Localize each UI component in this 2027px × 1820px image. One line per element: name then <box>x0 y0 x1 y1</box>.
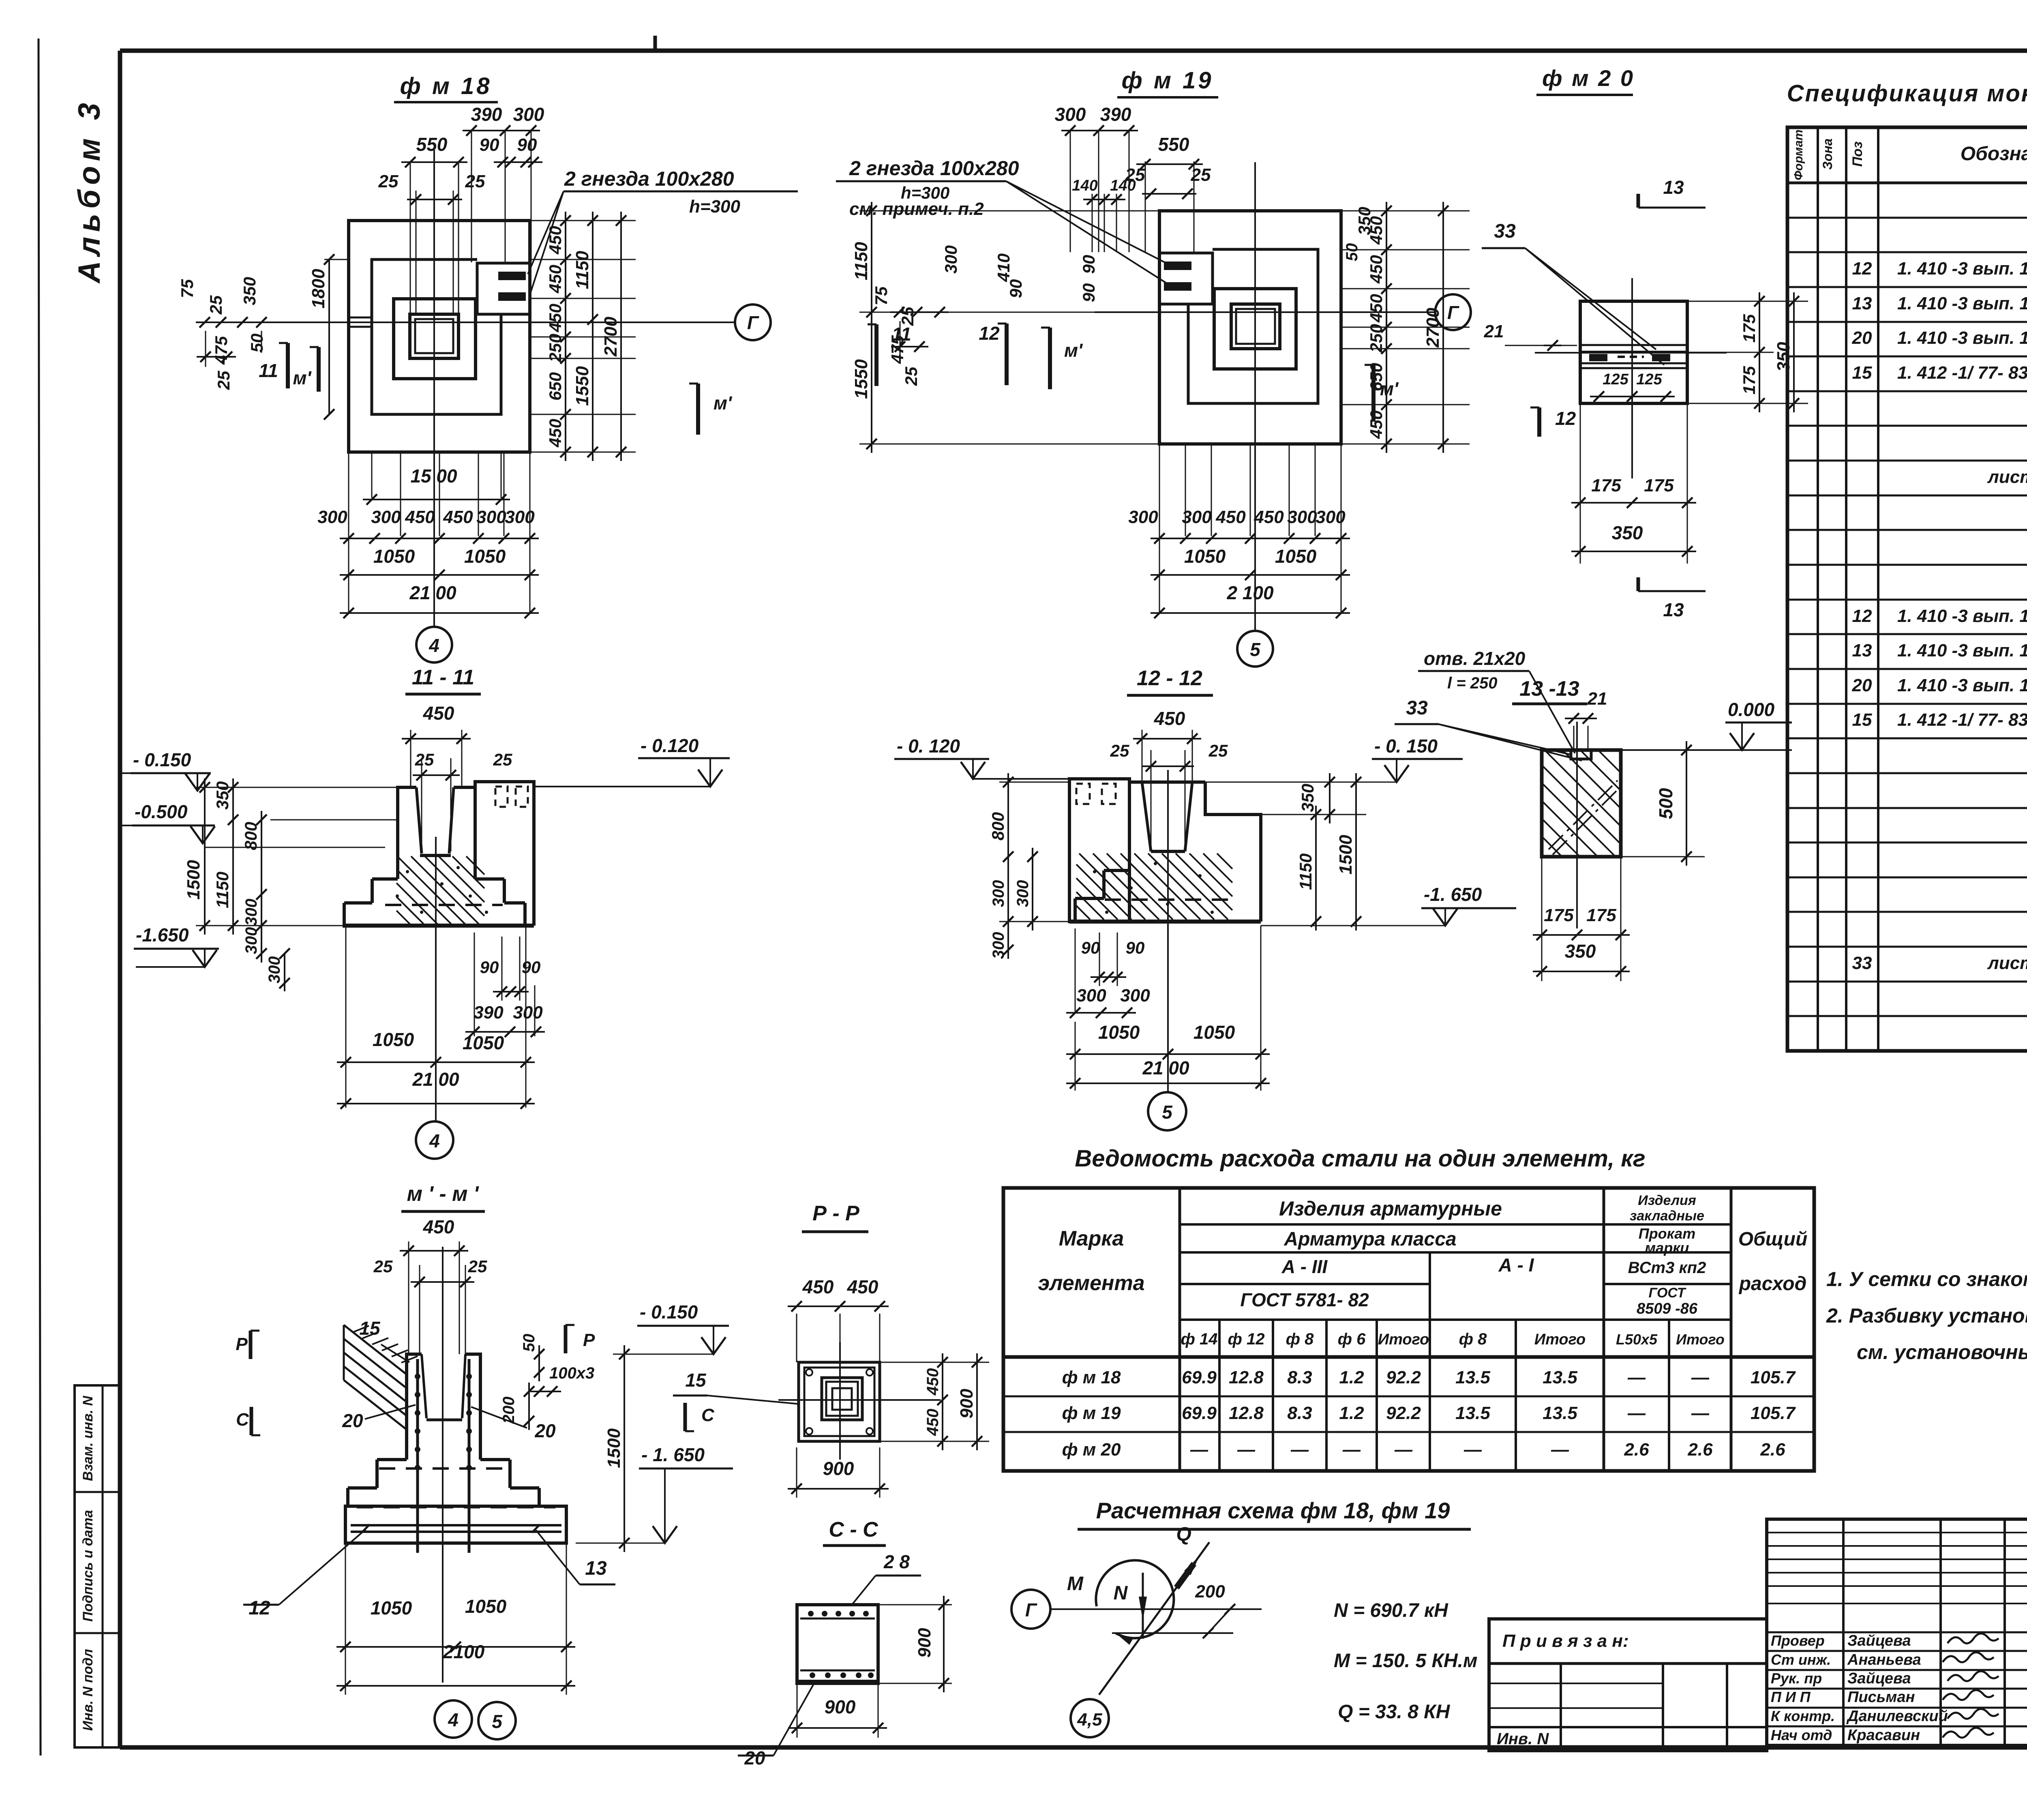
P-P right dims 450 450 <box>880 1362 989 1363</box>
FM18 axis circle 4 <box>416 627 452 662</box>
FM19 pier square <box>1214 289 1296 369</box>
svg-text:500: 500 <box>1655 788 1676 819</box>
svg-text:450: 450 <box>1367 255 1386 284</box>
13-13 block <box>1542 750 1621 857</box>
svg-text:15 00: 15 00 <box>410 465 457 487</box>
svg-text:300: 300 <box>242 927 260 954</box>
svg-text:—: — <box>1342 1440 1361 1460</box>
svg-text:175: 175 <box>1544 905 1574 925</box>
svg-text:Красавин: Красавин <box>1847 1727 1920 1744</box>
11-11 slab <box>343 903 346 926</box>
svg-text:450: 450 <box>546 304 565 332</box>
svg-text:390: 390 <box>1100 104 1131 125</box>
13-13 hatch <box>1543 838 1561 855</box>
FM19 socket bar 2 <box>1164 282 1191 291</box>
11-11 right block <box>475 782 534 926</box>
FM19 right extension lines <box>1341 210 1470 212</box>
svg-text:13.5: 13.5 <box>1543 1368 1577 1387</box>
FM19 socket block <box>1159 253 1213 304</box>
svg-text:марки: марки <box>1645 1239 1689 1256</box>
FM18 left dims cluster <box>205 322 349 323</box>
svg-text:1050: 1050 <box>463 1032 504 1053</box>
svg-text:1050: 1050 <box>1275 546 1317 567</box>
svg-text:550: 550 <box>1158 134 1189 155</box>
svg-text:Арматура класса: Арматура класса <box>1283 1228 1456 1250</box>
P-P center cross <box>839 1342 841 1460</box>
paper edge left line <box>39 39 41 1756</box>
11-11 axis circle 4 <box>416 1121 453 1159</box>
svg-text:300: 300 <box>1287 507 1317 527</box>
P-P mid square double <box>822 1378 862 1420</box>
svg-text:300: 300 <box>371 507 401 527</box>
FM18 outer slab outline <box>349 221 530 452</box>
13-13 dash-dot lines <box>1549 780 1618 849</box>
svg-text:300: 300 <box>941 245 960 274</box>
svg-text:21: 21 <box>1587 689 1607 709</box>
svg-text:11: 11 <box>259 360 278 381</box>
svg-text:Итого: Итого <box>1378 1331 1429 1348</box>
svg-text:1550: 1550 <box>851 359 871 399</box>
FM19 gnezda leaders <box>1006 181 1166 263</box>
svg-text:300: 300 <box>1076 986 1106 1005</box>
FM18 vertical axis 4 <box>433 150 435 626</box>
svg-text:ВСт3 кп2: ВСт3 кп2 <box>1628 1259 1706 1277</box>
svg-text:20: 20 <box>1852 675 1872 695</box>
svg-text:175: 175 <box>1740 314 1759 343</box>
svg-text:Общий: Общий <box>1738 1228 1808 1250</box>
svg-text:Г: Г <box>747 312 759 333</box>
svg-text:90: 90 <box>1126 938 1145 957</box>
svg-text:Р - Р: Р - Р <box>812 1202 859 1225</box>
FM19 left dim col <box>871 202 872 453</box>
svg-text:12.8: 12.8 <box>1229 1403 1264 1423</box>
svg-text:390: 390 <box>474 1003 504 1023</box>
FM20 cut marker 12 left <box>1537 407 1541 437</box>
svg-text:1550: 1550 <box>572 366 592 406</box>
svg-text:Взам. инв. N: Взам. инв. N <box>80 1395 96 1481</box>
svg-text:350: 350 <box>1612 522 1643 543</box>
11-11 axis line <box>435 837 437 1121</box>
C-C right dim 900 <box>878 1604 952 1606</box>
P-P right dim 900 <box>976 1353 978 1450</box>
svg-text:-1.650: -1.650 <box>136 924 189 945</box>
svg-text:Инв. N подл: Инв. N подл <box>80 1649 96 1731</box>
svg-text:90: 90 <box>522 958 541 977</box>
svg-text:300: 300 <box>1014 880 1032 907</box>
svg-text:расход: расход <box>1738 1273 1807 1295</box>
svg-text:175: 175 <box>1591 476 1621 495</box>
svg-text:1050: 1050 <box>371 1597 412 1618</box>
svg-text:М: М <box>1067 1573 1084 1595</box>
svg-text:1500: 1500 <box>604 1428 624 1468</box>
FM18 right dim col2 <box>592 212 594 461</box>
svg-text:2 гнезда 100х280: 2 гнезда 100х280 <box>564 167 734 190</box>
svg-text:L50х5: L50х5 <box>1616 1331 1658 1348</box>
svg-text:350: 350 <box>1355 207 1374 235</box>
svg-text:21: 21 <box>1484 322 1504 341</box>
svg-text:ф м 20: ф м 20 <box>1062 1440 1121 1460</box>
M'M' mesh lines <box>351 1524 561 1526</box>
svg-text:- 1. 650: - 1. 650 <box>641 1444 705 1465</box>
svg-text:90: 90 <box>1079 255 1098 274</box>
FM19 left extension lines <box>859 210 1159 212</box>
C-C bottom dots <box>810 1672 815 1678</box>
svg-text:450: 450 <box>1215 507 1246 527</box>
12-12 axis line <box>1167 770 1169 1092</box>
svg-text:Ананьева: Ананьева <box>1847 1651 1921 1668</box>
svg-text:ф 8: ф 8 <box>1286 1330 1314 1348</box>
M'M' rebar right with anchors <box>468 1359 471 1553</box>
svg-text:Р: Р <box>583 1330 595 1350</box>
svg-text:м': м' <box>293 367 312 388</box>
svg-text:2 гнезда 100х280: 2 гнезда 100х280 <box>849 157 1019 180</box>
svg-text:50: 50 <box>247 334 266 353</box>
FM19 horizontal axis G <box>1095 311 1434 313</box>
svg-text:- 0.150: - 0.150 <box>640 1301 698 1323</box>
svg-text:ф м 18: ф м 18 <box>400 73 492 99</box>
svg-text:Q = 33. 8 КН: Q = 33. 8 КН <box>1338 1701 1451 1723</box>
skhema axis circle G <box>1011 1590 1050 1629</box>
FM18 right dim col3 <box>620 212 622 461</box>
M'M' dashed level <box>379 1467 509 1470</box>
svg-text:90: 90 <box>1006 279 1025 298</box>
svg-text:390: 390 <box>471 104 502 125</box>
svg-text:650: 650 <box>546 372 565 401</box>
FM18 socket bar 1 <box>498 272 526 280</box>
svg-text:1050: 1050 <box>373 546 415 567</box>
svg-text:300: 300 <box>1128 507 1158 527</box>
FM19 socket bar 1 <box>1164 262 1191 270</box>
FM18 right dim col1 <box>565 212 566 461</box>
svg-text:5: 5 <box>1250 639 1261 660</box>
svg-text:90: 90 <box>1081 938 1100 957</box>
svg-text:300: 300 <box>317 507 347 527</box>
M'M' beam hatch <box>353 1326 369 1332</box>
svg-text:90: 90 <box>1079 283 1098 302</box>
12-12 dashed level line <box>1105 898 1235 901</box>
svg-text:1. 410 -3 вып. 1: 1. 410 -3 вып. 1 <box>1897 641 2027 660</box>
svg-text:1500: 1500 <box>184 860 204 900</box>
svg-text:м': м' <box>1064 340 1083 361</box>
svg-text:21 00: 21 00 <box>1142 1057 1189 1078</box>
svg-text:Подпись и дата: Подпись и дата <box>80 1510 96 1622</box>
FM18 gnezda leaders <box>528 191 564 274</box>
svg-text:15: 15 <box>359 1318 381 1339</box>
11-11 left dim stack <box>204 778 206 935</box>
svg-text:—: — <box>1627 1368 1646 1387</box>
svg-text:1150: 1150 <box>1296 853 1315 890</box>
FM18 middle rectangle 1800x1500 <box>372 259 501 414</box>
13-13 axis line <box>1576 722 1578 928</box>
11-11 body outline <box>398 787 416 879</box>
C-C square <box>797 1605 878 1683</box>
svg-text:Нач отд: Нач отд <box>1771 1727 1832 1743</box>
svg-text:5: 5 <box>1162 1102 1173 1123</box>
M'M' steps <box>377 1458 407 1461</box>
svg-text:350: 350 <box>213 781 232 810</box>
svg-text:450: 450 <box>924 1368 942 1396</box>
FM20 vertical axis <box>1631 278 1633 478</box>
C-C top inner line <box>800 1618 875 1620</box>
svg-text:12: 12 <box>1555 408 1576 429</box>
svg-text:ГОСТ 5781- 82: ГОСТ 5781- 82 <box>1240 1289 1369 1310</box>
svg-text:12.8: 12.8 <box>1229 1368 1264 1387</box>
svg-text:33: 33 <box>1494 221 1516 242</box>
svg-text:550: 550 <box>416 134 448 155</box>
svg-text:300: 300 <box>1120 986 1150 1005</box>
svg-text:Провер: Провер <box>1771 1632 1825 1649</box>
svg-text:Формат: Формат <box>1792 129 1805 180</box>
svg-text:Зайцева: Зайцева <box>1847 1632 1911 1649</box>
svg-text:5: 5 <box>492 1711 503 1732</box>
svg-text:1150: 1150 <box>213 872 232 908</box>
svg-text:Ст инж.: Ст инж. <box>1771 1651 1831 1668</box>
svg-text:175: 175 <box>1644 476 1674 495</box>
svg-text:25: 25 <box>378 171 399 191</box>
svg-text:Итого: Итого <box>1676 1331 1725 1348</box>
FM20 right dim col2 350 <box>1793 292 1795 412</box>
M'M' axis circles 4 5 <box>435 1700 472 1738</box>
svg-text:300: 300 <box>1055 104 1086 125</box>
FM20 block outline <box>1580 301 1687 403</box>
FM18 column glass inner <box>415 319 453 353</box>
svg-text:410: 410 <box>994 253 1013 282</box>
svg-text:800: 800 <box>988 812 1007 840</box>
svg-text:300: 300 <box>476 507 506 527</box>
12-12 left block <box>1069 779 1129 922</box>
svg-text:140: 140 <box>1072 177 1097 194</box>
svg-text:33: 33 <box>1852 953 1872 973</box>
svg-text:300: 300 <box>1182 507 1212 527</box>
FM18 bottom extension lines <box>348 452 349 613</box>
svg-text:13.5: 13.5 <box>1543 1403 1577 1423</box>
svg-text:21 00: 21 00 <box>409 582 456 603</box>
svg-text:Зона: Зона <box>1820 138 1835 169</box>
M'M' cut markers P C left <box>249 1331 253 1359</box>
FM18 column glass outer <box>410 314 459 358</box>
svg-text:20: 20 <box>342 1410 363 1431</box>
skhema moment arc <box>1096 1561 1174 1638</box>
svg-text:ф м 19: ф м 19 <box>1062 1403 1121 1423</box>
FM19 outer slab outline <box>1159 211 1341 444</box>
C-C top dots <box>808 1611 814 1616</box>
svg-text:100х3: 100х3 <box>549 1364 594 1382</box>
svg-text:лист 16: лист 16 <box>1987 953 2027 973</box>
11-11 dashed level line <box>385 904 503 906</box>
svg-text:450: 450 <box>1253 507 1284 527</box>
svg-text:450: 450 <box>847 1276 879 1297</box>
svg-text:1.2: 1.2 <box>1339 1368 1364 1387</box>
svg-text:8509 -86: 8509 -86 <box>1637 1300 1698 1317</box>
svg-text:ф м 19: ф м 19 <box>1122 67 1214 94</box>
FM19 right dim col1 <box>1386 202 1387 453</box>
FM19 axis circle G <box>1435 294 1471 330</box>
svg-text:21 00: 21 00 <box>412 1069 459 1090</box>
svg-text:92.2: 92.2 <box>1386 1368 1421 1387</box>
svg-text:20: 20 <box>534 1420 556 1441</box>
svg-text:2100: 2100 <box>443 1641 485 1662</box>
svg-text:—: — <box>1290 1440 1309 1460</box>
svg-text:25: 25 <box>214 371 233 390</box>
svg-text:2 8: 2 8 <box>883 1551 910 1572</box>
svg-text:А - I: А - I <box>1498 1254 1534 1276</box>
svg-text:h=300: h=300 <box>689 197 741 217</box>
svg-text:П И П: П И П <box>1771 1689 1811 1705</box>
svg-text:Зайцева: Зайцева <box>1847 1670 1911 1687</box>
FM19 right dim col3 <box>1442 202 1444 453</box>
FM19 cut marker 11 <box>874 324 879 386</box>
svg-text:- 0.120: - 0.120 <box>641 735 699 756</box>
svg-text:1150: 1150 <box>851 242 871 280</box>
svg-text:Марка: Марка <box>1059 1227 1124 1250</box>
M'M' stakan outline <box>407 1354 422 1427</box>
FM19 cut marker 12 <box>1005 324 1009 385</box>
svg-text:450: 450 <box>802 1276 834 1297</box>
FM18 axis circle G <box>735 304 771 340</box>
svg-text:ф 6: ф 6 <box>1338 1330 1366 1348</box>
FM20 cut marker 13 top <box>1637 194 1640 208</box>
skhema axis line <box>1050 1608 1262 1610</box>
M'M' glass walls <box>422 1354 426 1418</box>
FM18 horizontal axis G <box>203 322 734 323</box>
svg-text:лист 16: лист 16 <box>1987 467 2027 487</box>
svg-text:75: 75 <box>872 286 891 305</box>
svg-text:300: 300 <box>513 1003 543 1023</box>
svg-text:0.000: 0.000 <box>1728 699 1775 720</box>
svg-text:ф м 2 0: ф м 2 0 <box>1542 65 1635 91</box>
FM18 socket block <box>477 263 530 314</box>
svg-text:l = 250: l = 250 <box>1447 674 1497 692</box>
margin stamp column <box>75 1385 120 1747</box>
svg-text:Спецификация монолитных фунд: Спецификация монолитных фундаментов Фм18… <box>1787 80 2027 107</box>
svg-text:12: 12 <box>1852 259 1872 279</box>
FM20 right dim col1 175 175 <box>1759 292 1760 412</box>
FM18 right extension lines <box>530 220 636 221</box>
svg-text:900: 900 <box>825 1696 856 1717</box>
svg-text:800: 800 <box>241 822 260 850</box>
specification table grid <box>1787 127 2027 1051</box>
svg-text:- 0. 120: - 0. 120 <box>897 735 960 757</box>
svg-text:13: 13 <box>1663 599 1684 620</box>
svg-text:ГОСТ: ГОСТ <box>1649 1285 1687 1301</box>
svg-text:1. 412 -1/ 77- 83 - 020: 1. 412 -1/ 77- 83 - 020 <box>1897 363 2027 383</box>
M'M' dims right 50 100x3 200 20 <box>538 1345 540 1381</box>
M'M' slab <box>345 1506 566 1543</box>
svg-text:250: 250 <box>546 334 565 362</box>
svg-text:13 -13: 13 -13 <box>1519 677 1579 701</box>
11-11 right block dashed sockets <box>495 787 508 807</box>
svg-text:300: 300 <box>990 880 1007 907</box>
svg-text:13: 13 <box>1663 177 1684 198</box>
svg-text:450: 450 <box>443 507 473 527</box>
svg-text:350: 350 <box>1298 784 1317 812</box>
svg-text:15: 15 <box>1852 710 1872 730</box>
svg-text:4,5: 4,5 <box>1077 1710 1102 1730</box>
svg-text:1800: 1800 <box>309 269 328 309</box>
svg-text:92.2: 92.2 <box>1386 1403 1421 1423</box>
13-13 notch <box>1571 750 1591 759</box>
svg-text:4: 4 <box>429 635 439 656</box>
svg-text:2.6: 2.6 <box>1624 1440 1649 1460</box>
svg-text:200: 200 <box>1195 1582 1225 1601</box>
svg-text:1050: 1050 <box>1098 1022 1140 1043</box>
svg-text:450: 450 <box>423 1216 454 1237</box>
svg-text:900: 900 <box>823 1458 854 1479</box>
M'M' axis line <box>442 1247 444 1683</box>
svg-text:300: 300 <box>242 899 260 926</box>
svg-text:25: 25 <box>902 367 921 386</box>
svg-text:С: С <box>701 1405 715 1425</box>
svg-text:-1. 650: -1. 650 <box>1424 884 1482 905</box>
FM20 plate dark dashes <box>1589 354 1607 361</box>
svg-text:350: 350 <box>240 277 259 305</box>
svg-text:Р: Р <box>236 1334 248 1354</box>
svg-text:1050: 1050 <box>373 1029 414 1050</box>
skhema lower line <box>1112 1632 1233 1634</box>
svg-text:1.2: 1.2 <box>1339 1403 1364 1423</box>
M'M' cut markers P C right <box>564 1325 568 1353</box>
svg-text:69.9: 69.9 <box>1182 1403 1217 1423</box>
svg-text:25: 25 <box>1110 741 1129 760</box>
svg-text:—: — <box>1463 1440 1482 1460</box>
svg-text:—: — <box>1691 1403 1710 1423</box>
svg-text:1050: 1050 <box>1193 1022 1235 1043</box>
svg-text:А - III: А - III <box>1281 1256 1328 1277</box>
FM19 vertical axis 5 <box>1254 162 1256 630</box>
M'M' mesh x marks <box>362 1524 370 1533</box>
FM19 bottom extension lines <box>1159 444 1160 613</box>
FM20 right extension lines <box>1687 301 1808 302</box>
svg-text:2 100: 2 100 <box>1226 582 1274 603</box>
svg-text:2. Разбивку установочных болто: 2. Разбивку установочных болтов под воро… <box>1826 1304 2027 1327</box>
svg-text:м ' - м ': м ' - м ' <box>407 1182 479 1206</box>
svg-text:—: — <box>1237 1440 1256 1460</box>
svg-text:ф м 18: ф м 18 <box>1062 1368 1121 1387</box>
fold tick top-left <box>654 36 657 51</box>
vedomost steel table <box>1003 1188 1814 1471</box>
svg-text:475: 475 <box>212 336 231 365</box>
main drawing frame <box>120 49 2027 53</box>
svg-text:см. установочный чертеж, сер: см. установочный чертеж, серия 1. 435.9 … <box>1857 1341 2027 1363</box>
12-12 glass trapezoid <box>1142 782 1151 851</box>
svg-text:450: 450 <box>1154 708 1185 729</box>
svg-text:25: 25 <box>206 295 225 315</box>
svg-text:12 - 12: 12 - 12 <box>1137 667 1202 690</box>
svg-text:N = 690.7 кН: N = 690.7 кН <box>1334 1600 1448 1621</box>
M'M' dim 1500 right <box>624 1345 625 1552</box>
svg-text:ф 8: ф 8 <box>1459 1330 1487 1348</box>
svg-text:25: 25 <box>373 1257 393 1276</box>
FM19 middle rectangle <box>1188 249 1318 403</box>
svg-text:900: 900 <box>957 1389 977 1419</box>
FM18 left edge notch lines <box>349 317 372 319</box>
svg-text:1050: 1050 <box>465 1596 507 1617</box>
svg-text:90: 90 <box>480 958 499 977</box>
FM19 column glass outer <box>1231 304 1280 349</box>
svg-text:200: 200 <box>500 1397 518 1424</box>
FM18 cut marker M left <box>317 347 321 392</box>
svg-text:2.6: 2.6 <box>1687 1440 1713 1460</box>
svg-text:8.3: 8.3 <box>1287 1368 1312 1387</box>
P-P inner square <box>832 1388 852 1410</box>
svg-text:69.9: 69.9 <box>1182 1368 1217 1387</box>
svg-text:13.5: 13.5 <box>1455 1368 1490 1387</box>
svg-text:25: 25 <box>493 750 512 769</box>
svg-text:13: 13 <box>1852 294 1872 313</box>
svg-text:Итого: Итого <box>1534 1331 1586 1348</box>
11-11 steps <box>372 877 398 881</box>
12-12 axis circle 5 <box>1148 1092 1186 1130</box>
